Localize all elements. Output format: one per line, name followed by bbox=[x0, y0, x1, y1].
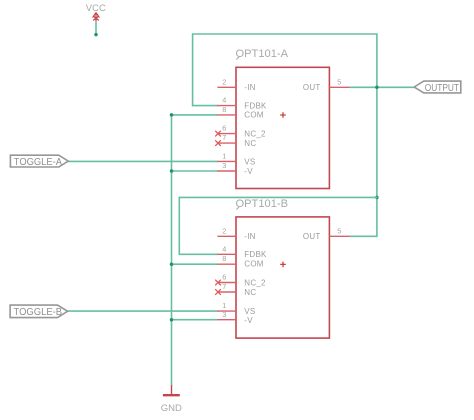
ground GND bbox=[161, 385, 182, 414]
wire VCC stub bbox=[95, 22, 97, 35]
pin 8 COM (A) bbox=[217, 114, 236, 116]
svg-text:OPT101-A: OPT101-A bbox=[236, 48, 289, 60]
wire A feedback loop left vertical bbox=[192, 34, 194, 106]
svg-text:TOGGLE-A: TOGGLE-A bbox=[14, 156, 62, 168]
svg-text:2: 2 bbox=[222, 226, 226, 235]
node A out junction bbox=[375, 86, 379, 90]
svg-text:NC_2: NC_2 bbox=[244, 279, 266, 288]
svg-text:TOGGLE-B: TOGGLE-B bbox=[14, 306, 63, 318]
wire A output to OUTPUT flag bbox=[349, 86, 415, 88]
svg-text:OPT101-B: OPT101-B bbox=[236, 198, 289, 210]
svg-text:-IN: -IN bbox=[244, 83, 255, 92]
svg-text:7: 7 bbox=[222, 282, 226, 291]
wire B feedback to FDBK pin bbox=[179, 253, 217, 255]
pin 6 NC_2 (A) bbox=[218, 133, 236, 135]
wire B output bbox=[349, 235, 377, 237]
wire ground vertical bbox=[171, 115, 173, 385]
wire ground COM-A bbox=[172, 114, 218, 116]
opto U2 OPT101-B bbox=[236, 198, 330, 338]
node VCC junction bbox=[94, 33, 98, 37]
svg-text:4: 4 bbox=[222, 96, 226, 105]
svg-text:6: 6 bbox=[222, 124, 226, 133]
pin 7 NC (B) bbox=[218, 291, 236, 293]
svg-text:OUT: OUT bbox=[303, 232, 321, 241]
svg-text:-IN: -IN bbox=[244, 232, 255, 241]
wire TOGGLE-A to VS-A bbox=[68, 160, 217, 162]
svg-text:5: 5 bbox=[337, 226, 341, 235]
wire B feedback loop left vertical bbox=[178, 197, 180, 254]
port TOGGLE-A bbox=[10, 155, 68, 168]
svg-text:8: 8 bbox=[222, 254, 226, 263]
node COM-A junction bbox=[170, 113, 174, 117]
svg-text:VS: VS bbox=[244, 157, 255, 166]
wire ground -V-B bbox=[172, 319, 218, 321]
pin 4 FDBK (B) bbox=[217, 253, 236, 255]
wire A feedback loop top bbox=[193, 33, 377, 35]
wire ground COM-B bbox=[172, 263, 218, 265]
svg-text:COM: COM bbox=[244, 111, 263, 120]
svg-text:NC_2: NC_2 bbox=[244, 130, 266, 139]
svg-text:VCC: VCC bbox=[86, 3, 106, 14]
svg-text:5: 5 bbox=[337, 77, 341, 86]
pin 4 FDBK (A) bbox=[217, 105, 236, 107]
opto U1 OPT101-A bbox=[236, 48, 330, 189]
node COM-B junction bbox=[170, 262, 174, 266]
pin 5 OUT (B) bbox=[329, 235, 349, 237]
svg-text:4: 4 bbox=[222, 244, 226, 253]
node -V-B junction bbox=[170, 318, 174, 322]
svg-text:FDBK: FDBK bbox=[244, 101, 267, 110]
node B loop junction bbox=[375, 196, 379, 200]
svg-text:6: 6 bbox=[222, 273, 226, 282]
svg-text:7: 7 bbox=[222, 133, 226, 142]
svg-text:1: 1 bbox=[222, 301, 226, 310]
svg-text:-V: -V bbox=[244, 316, 253, 325]
wire ground -V-A bbox=[172, 170, 218, 172]
svg-text:-V: -V bbox=[244, 167, 253, 176]
svg-text:FDBK: FDBK bbox=[244, 250, 267, 259]
pin 1 VS (A) bbox=[217, 160, 236, 162]
wire A feedback to FDBK pin bbox=[193, 105, 218, 107]
pin 3 -V (A) bbox=[217, 170, 236, 172]
pin 5 OUT (A) bbox=[329, 86, 349, 88]
power VCC bbox=[86, 3, 106, 22]
svg-text:OUT: OUT bbox=[303, 83, 321, 92]
pin 8 COM (B) bbox=[217, 263, 236, 265]
pin 3 -V (B) bbox=[217, 319, 236, 321]
port OUTPUT bbox=[414, 81, 461, 94]
pin 7 NC (A) bbox=[218, 142, 236, 144]
pin 2 -IN (B) bbox=[217, 235, 236, 237]
node -V-A junction bbox=[170, 169, 174, 173]
pin 2 -IN (A) bbox=[217, 86, 236, 88]
svg-text:NC: NC bbox=[244, 288, 256, 297]
svg-text:GND: GND bbox=[161, 403, 182, 414]
svg-text:VS: VS bbox=[244, 307, 255, 316]
port TOGGLE-B bbox=[10, 305, 68, 318]
wire right vertical bus bbox=[376, 34, 378, 236]
pin 1 VS (B) bbox=[217, 310, 236, 312]
pin 6 NC_2 (B) bbox=[218, 282, 236, 284]
svg-text:COM: COM bbox=[244, 260, 263, 269]
svg-text:3: 3 bbox=[222, 161, 226, 170]
svg-text:OUTPUT: OUTPUT bbox=[425, 82, 460, 94]
svg-text:3: 3 bbox=[222, 310, 226, 319]
svg-text:2: 2 bbox=[222, 77, 226, 86]
svg-text:1: 1 bbox=[222, 151, 226, 160]
svg-text:NC: NC bbox=[244, 139, 256, 148]
wire TOGGLE-B to VS-B bbox=[68, 310, 218, 312]
svg-text:8: 8 bbox=[222, 105, 226, 114]
wire B feedback loop top bbox=[179, 196, 377, 198]
